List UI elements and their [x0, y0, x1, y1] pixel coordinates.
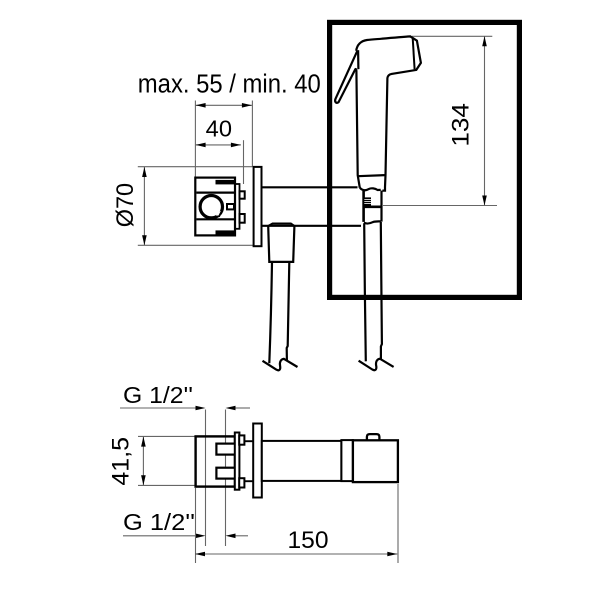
valve tab lower right — [240, 214, 245, 223]
handle joint line — [358, 175, 386, 176]
hand shower head outline — [356, 36, 421, 190]
G 1/2'' bottom label — [123, 509, 195, 535]
valve mounting tab bottom (filled) — [216, 230, 235, 235]
side view: upper pipe stub — [216, 444, 235, 455]
holder bar bottom line — [262, 225, 362, 227]
hand shower handle left edge — [356, 71, 359, 188]
side view: valve box — [196, 436, 235, 486]
side view: lower connector line — [245, 480, 253, 482]
connector wavy bottom — [364, 221, 381, 223]
hand shower head left face — [357, 50, 359, 69]
wall escutcheon plate — [254, 167, 262, 246]
dimension line Ø70 — [138, 167, 253, 246]
side view: mounting rail — [235, 433, 240, 490]
highlight frame (thick) — [330, 22, 520, 297]
dimension 41,5 label (rotated) — [108, 437, 135, 486]
dimension 150 label — [288, 527, 329, 554]
G 1/2 top leader — [120, 408, 250, 546]
side view: end section — [353, 440, 398, 482]
dimension 40 label — [206, 116, 232, 142]
valve step strip — [235, 184, 240, 229]
svg-text:150: 150 — [288, 527, 329, 554]
svg-text:41,5: 41,5 — [108, 437, 135, 486]
dimension line 40 — [196, 140, 244, 184]
svg-text:max. 55 / min. 40: max. 55 / min. 40 — [138, 70, 321, 98]
hand shower nozzle beak — [335, 51, 357, 103]
svg-text:40: 40 — [206, 116, 232, 142]
G 1/2 bottom leader — [123, 535, 248, 537]
dimension line 150 — [195, 484, 398, 563]
side view: escutcheon plate — [253, 424, 262, 498]
left hose — [269, 262, 272, 363]
valve box internal line top — [196, 192, 234, 194]
right hose break symbol — [359, 359, 394, 371]
hand shower head cap line — [413, 38, 415, 69]
side view: upper connector line — [245, 440, 253, 442]
dimension 134 label (rotated) — [448, 103, 475, 147]
valve tab upper right — [240, 191, 245, 198]
cartridge notch — [216, 211, 221, 215]
side view: upper nut — [239, 435, 244, 444]
valve cartridge circle — [200, 196, 222, 218]
svg-text:134: 134 — [448, 103, 475, 147]
connector knurl block — [364, 197, 371, 205]
hose cone connector — [268, 224, 294, 262]
connector divider — [363, 206, 383, 209]
side view: ring band — [341, 440, 353, 481]
valve box internal line bottom — [196, 218, 234, 220]
connector left edge — [362, 191, 365, 222]
holder bar top line — [262, 186, 358, 188]
left hose break symbol — [263, 359, 298, 371]
valve mounting tab top (filled) — [216, 180, 235, 185]
connector right edge — [380, 191, 382, 222]
side view: cylinder body — [262, 441, 342, 481]
dimension Ø70 label (rotated) — [112, 183, 139, 227]
svg-text:Ø70: Ø70 — [112, 183, 139, 227]
dimension max. 55 / min. 40 label — [138, 70, 321, 98]
dimension line max55/min40 — [195, 101, 252, 178]
side view: lower pipe stub — [216, 468, 235, 479]
connector wavy top — [360, 188, 381, 190]
dimension line 134 — [383, 36, 497, 205]
svg-text:G 1/2'': G 1/2'' — [123, 509, 195, 535]
side view: button — [367, 434, 380, 440]
side view: lower nut — [239, 478, 244, 487]
dimension line 41,5 — [138, 436, 196, 485]
G 1/2'' top label — [123, 382, 193, 408]
valve body box (wall view) — [195, 178, 235, 236]
valve small square right of circle — [227, 204, 234, 209]
right hose — [364, 224, 366, 362]
svg-text:G 1/2'': G 1/2'' — [123, 382, 193, 408]
